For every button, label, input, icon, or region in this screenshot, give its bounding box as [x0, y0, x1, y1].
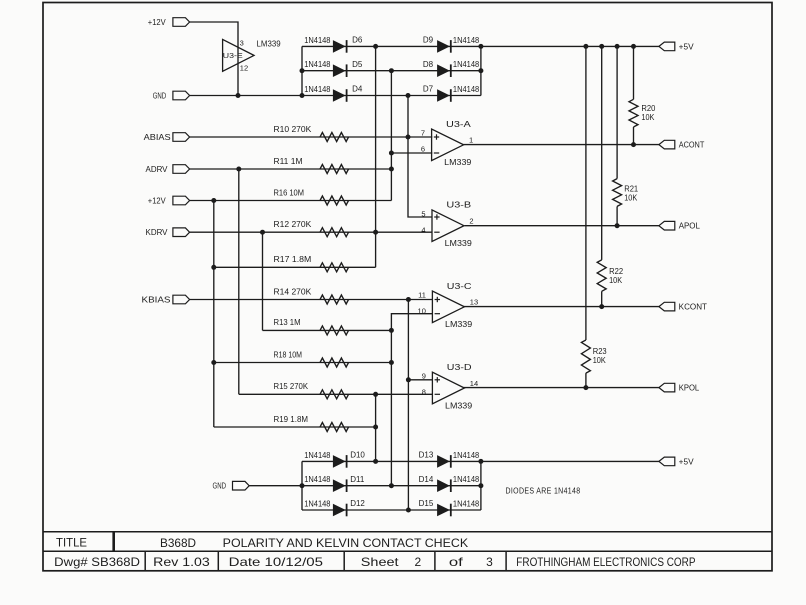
svg-text:LM339: LM339: [445, 320, 473, 329]
wire KBIAS row to U3-C pin11: [190, 299, 433, 301]
svg-text:+5V: +5V: [679, 457, 695, 466]
wire left diode bus bottom group: [301, 461, 303, 510]
wire GND2 row / D11-D14 row: [249, 485, 481, 487]
svg-text:D11: D11: [350, 475, 365, 484]
diode D4 1N4148: [304, 85, 363, 102]
node +5V output flag top: [659, 42, 694, 51]
wire R15 row to U3-D pin8: [239, 393, 433, 395]
resistor R14: [274, 287, 349, 304]
svg-text:D8: D8: [423, 60, 434, 69]
diode D15 1N4148: [419, 499, 480, 516]
wire vertical V1 lower: [375, 394, 377, 461]
wire vertical V1 upper: [375, 46, 377, 267]
svg-text:D15: D15: [419, 499, 434, 508]
svg-text:TITLE: TITLE: [56, 536, 87, 550]
wire +12V row to R16: [190, 200, 392, 202]
svg-text:Date 10/12/05: Date 10/12/05: [229, 555, 324, 569]
svg-text:1N4148: 1N4148: [453, 475, 480, 484]
svg-text:ACONT: ACONT: [679, 141, 705, 150]
svg-text:U3-E: U3-E: [223, 51, 243, 60]
svg-text:1N4148: 1N4148: [453, 36, 480, 45]
title block lines: [43, 532, 772, 571]
svg-text:1N4148: 1N4148: [453, 499, 480, 508]
wire ACONT row: [463, 144, 659, 146]
svg-text:D7: D7: [423, 85, 434, 94]
svg-text:3: 3: [486, 555, 493, 569]
wire R13 row: [263, 329, 392, 331]
node +12V input flag mid: [148, 196, 190, 205]
wire D12-D15 row: [302, 509, 481, 511]
wire vertical L1: [213, 201, 215, 428]
svg-text:D14: D14: [419, 475, 434, 484]
svg-text:D13: D13: [419, 451, 434, 460]
svg-text:1N4148: 1N4148: [304, 60, 331, 69]
resistor R18: [274, 350, 349, 367]
svg-text:Rev 1.03: Rev 1.03: [153, 555, 210, 569]
svg-text:+5V: +5V: [679, 42, 695, 51]
node KDRV input flag: [146, 228, 190, 237]
wire vertical L3: [262, 232, 264, 330]
svg-text:8: 8: [422, 388, 426, 397]
svg-text:R11 1M: R11 1M: [274, 157, 303, 166]
svg-text:+12V: +12V: [148, 197, 167, 206]
node KBIAS input flag: [142, 295, 190, 304]
svg-text:KPOL: KPOL: [679, 384, 700, 393]
svg-text:5: 5: [421, 209, 425, 218]
wire right diode bus top group: [480, 46, 482, 95]
node KPOL output flag: [659, 383, 700, 392]
node GND input flag: [153, 91, 190, 100]
wire +5V top rail / D6-D9 row: [302, 45, 659, 47]
wire vertical V2 upper: [390, 71, 392, 201]
svg-text:POLARITY AND KELVIN CONTACT CH: POLARITY AND KELVIN CONTACT CHECK: [223, 536, 468, 550]
svg-text:10K: 10K: [624, 194, 638, 203]
resistor R10: [274, 125, 349, 142]
node KCONT output flag: [659, 302, 707, 311]
wire vertical V3 lower: [407, 300, 409, 511]
diode D12 1N4148: [304, 499, 365, 516]
svg-text:R12 270K: R12 270K: [274, 220, 312, 229]
svg-text:R10 270K: R10 270K: [274, 125, 312, 134]
svg-text:R20: R20: [641, 104, 656, 113]
wire R19 row: [214, 426, 376, 428]
svg-text:R16 10M: R16 10M: [274, 188, 305, 197]
diode D7 1N4148: [423, 85, 480, 102]
wire R20 drop: [633, 46, 635, 99]
svg-text:1N4148: 1N4148: [304, 451, 331, 460]
ground GND input flag bottom: [213, 481, 250, 490]
diode D5 1N4148: [304, 60, 363, 77]
svg-text:+12V: +12V: [148, 18, 167, 27]
diode D11 1N4148: [304, 475, 365, 492]
op-amp U3-D: [422, 363, 478, 410]
wire ADRV row: [190, 168, 392, 170]
svg-text:3: 3: [240, 39, 244, 48]
svg-text:14: 14: [470, 379, 478, 388]
svg-text:U3-A: U3-A: [446, 120, 472, 129]
svg-text:Dwg# SB368D: Dwg# SB368D: [54, 555, 140, 569]
diode D6 1N4148: [304, 36, 363, 53]
svg-text:LM339: LM339: [445, 239, 473, 248]
svg-text:R13 1M: R13 1M: [274, 318, 301, 327]
wire GND row / D4-D7 row: [190, 95, 481, 97]
svg-text:6: 6: [421, 144, 425, 153]
node ADRV input flag: [146, 165, 190, 174]
svg-text:R23: R23: [593, 347, 608, 356]
svg-text:LM339: LM339: [257, 39, 282, 48]
op-amp U3-C: [418, 282, 479, 329]
svg-text:B368D: B368D: [160, 536, 196, 550]
svg-text:KBIAS: KBIAS: [142, 296, 171, 305]
resistor R23 10K pullup: [581, 340, 607, 373]
svg-text:1N4148: 1N4148: [453, 451, 480, 460]
svg-text:7: 7: [421, 129, 425, 138]
wire pullup rail C: [616, 46, 618, 178]
svg-text:U3-B: U3-B: [446, 201, 471, 210]
svg-text:GND: GND: [153, 92, 167, 101]
resistor R22 10K pullup: [597, 260, 623, 291]
svg-text:DIODES ARE 1N4148: DIODES ARE 1N4148: [506, 487, 581, 496]
node +12V input flag top: [148, 18, 190, 27]
svg-text:R14 270K: R14 270K: [274, 287, 312, 296]
node APOL output flag: [659, 221, 701, 230]
wire right diode bus bottom group: [480, 461, 482, 510]
node +5V output flag bottom: [659, 457, 694, 466]
svg-text:LM339: LM339: [445, 401, 473, 410]
svg-text:FROTHINGHAM ELECTRONICS CORP: FROTHINGHAM ELECTRONICS CORP: [516, 555, 695, 569]
svg-text:R17 1.8M: R17 1.8M: [274, 255, 312, 264]
wire +12V to U3-E pin3: [190, 22, 238, 96]
svg-text:Sheet: Sheet: [361, 555, 400, 569]
svg-text:1N4148: 1N4148: [453, 85, 480, 94]
svg-text:D10: D10: [350, 451, 365, 460]
node ACONT output flag: [659, 140, 705, 149]
wire left diode bus top group: [301, 46, 303, 95]
svg-text:ADRV: ADRV: [146, 165, 169, 174]
wire D10-D13 row to +5V: [302, 460, 659, 462]
resistor R15: [274, 382, 349, 399]
diode D9 1N4148: [423, 36, 480, 53]
svg-text:KDRV: KDRV: [146, 228, 169, 237]
svg-text:ABIAS: ABIAS: [144, 133, 171, 142]
svg-text:R22: R22: [609, 267, 624, 276]
wire R17 row: [214, 266, 376, 268]
svg-text:10K: 10K: [641, 113, 655, 122]
svg-text:2: 2: [469, 217, 473, 226]
svg-text:R18 10M: R18 10M: [274, 350, 303, 359]
svg-text:D12: D12: [350, 499, 365, 508]
wire pullup rail B: [601, 46, 603, 260]
svg-text:U3-D: U3-D: [447, 363, 472, 372]
svg-text:D6: D6: [352, 36, 363, 45]
resistor R13: [274, 318, 349, 335]
node ABIAS input flag: [144, 133, 190, 142]
wire U3-A pin6 row: [391, 152, 432, 154]
resistor R11: [274, 157, 349, 174]
svg-text:9: 9: [422, 372, 426, 381]
svg-text:R21: R21: [624, 185, 639, 194]
svg-text:2: 2: [415, 555, 422, 569]
svg-text:10K: 10K: [593, 356, 607, 365]
wire vertical L2: [238, 169, 240, 394]
svg-text:4: 4: [421, 225, 425, 234]
svg-text:APOL: APOL: [679, 222, 701, 231]
svg-text:R15 270K: R15 270K: [274, 382, 309, 391]
op-amp U3-E power stage: [223, 39, 282, 73]
wire D5-D8 row: [302, 70, 481, 72]
svg-text:10: 10: [418, 306, 426, 315]
svg-text:D9: D9: [423, 36, 434, 45]
svg-text:1: 1: [469, 136, 473, 145]
wire R18 row: [214, 362, 392, 364]
svg-text:KCONT: KCONT: [679, 303, 707, 312]
resistor R21 10K pullup: [613, 179, 639, 207]
svg-text:1N4148: 1N4148: [453, 60, 480, 69]
svg-text:1N4148: 1N4148: [304, 36, 331, 45]
svg-text:of: of: [449, 555, 464, 569]
svg-text:D4: D4: [352, 85, 363, 94]
wire pullup rail A: [585, 46, 587, 340]
wire ABIAS row to U3-A pin7: [190, 136, 433, 138]
svg-text:D5: D5: [352, 60, 363, 69]
svg-text:10K: 10K: [609, 276, 623, 285]
svg-text:U3-C: U3-C: [447, 282, 472, 291]
diode D10 1N4148: [304, 451, 365, 468]
wire vertical V3 upper and U3-B pin5 row: [408, 96, 432, 218]
resistor R17: [274, 255, 349, 272]
diode D14 1N4148: [419, 475, 480, 492]
wire U3-C pin10 row and vertical V2 lower: [391, 314, 432, 486]
wire KCONT row: [464, 306, 659, 308]
wire KPOL row: [464, 387, 659, 389]
op-amp U3-B: [421, 201, 473, 248]
op-amp U3-A: [421, 120, 473, 167]
svg-text:12: 12: [240, 64, 248, 73]
resistor R20 10K pullup: [629, 99, 656, 127]
svg-text:1N4148: 1N4148: [304, 475, 331, 484]
wire U3-D pin9 row: [408, 379, 432, 381]
svg-text:1N4148: 1N4148: [304, 85, 331, 94]
diode D13 1N4148: [419, 451, 480, 468]
svg-text:GND: GND: [213, 482, 227, 491]
svg-text:LM339: LM339: [444, 158, 472, 167]
wire KDRV row to U3-B pin4: [190, 231, 432, 233]
resistor R12: [274, 220, 349, 237]
wire APOL row: [465, 225, 659, 227]
diode D8 1N4148: [423, 60, 480, 77]
svg-text:R19 1.8M: R19 1.8M: [274, 415, 309, 424]
svg-text:1N4148: 1N4148: [304, 499, 331, 508]
svg-text:11: 11: [418, 291, 426, 300]
resistor R16: [274, 188, 349, 205]
resistor R19: [274, 415, 349, 432]
svg-text:13: 13: [470, 298, 478, 307]
